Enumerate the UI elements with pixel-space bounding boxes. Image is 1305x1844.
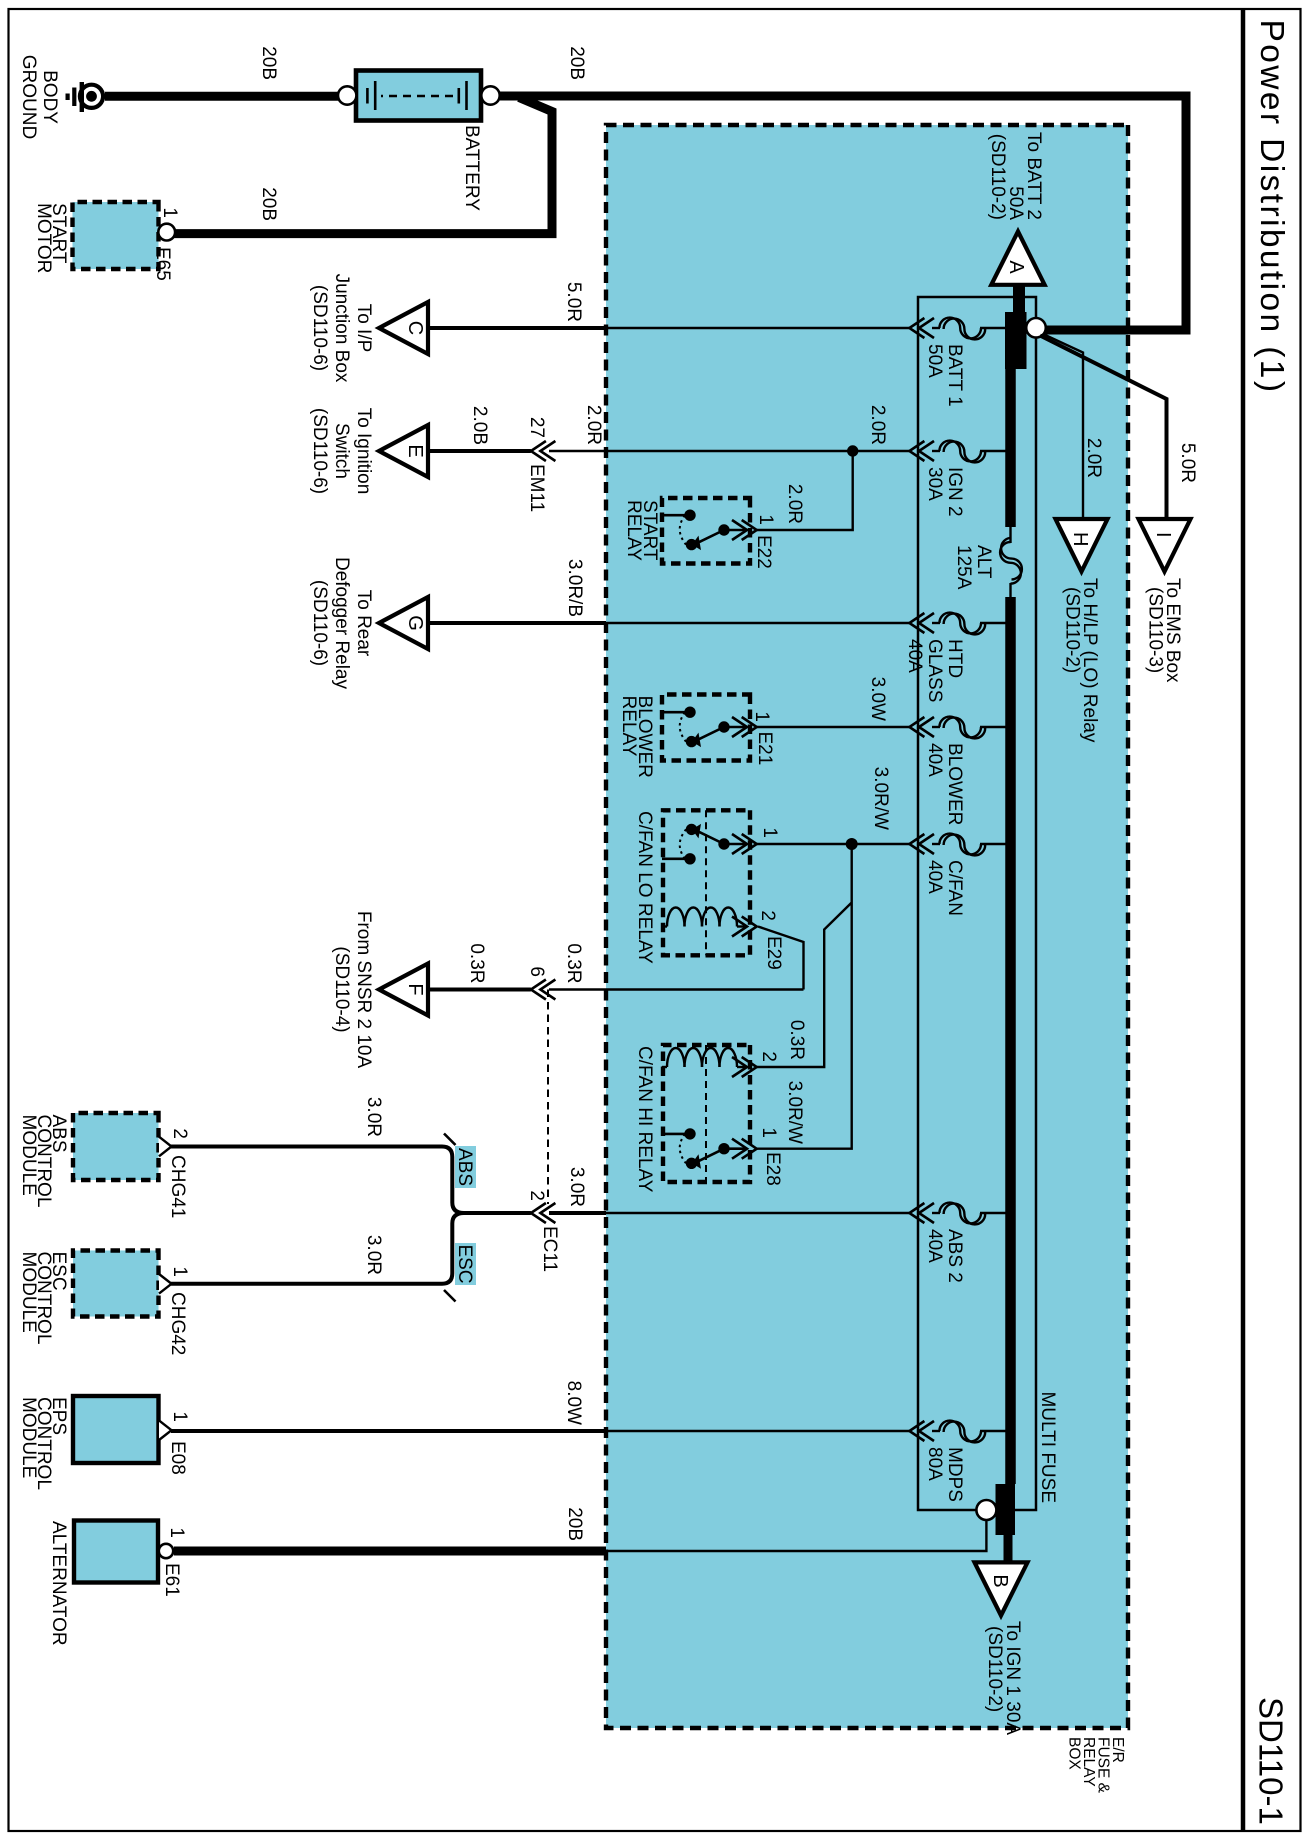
bus bar segment B (thick) xyxy=(996,1484,1016,1535)
wire to H/LP relay (2.0R) xyxy=(1043,334,1083,519)
cfan hi relay pin 1 chevrons xyxy=(732,1127,783,1185)
label ESC CONTROL MODULE xyxy=(18,1252,69,1345)
body ground symbol xyxy=(66,82,104,112)
svg-text:E28: E28 xyxy=(762,1152,783,1186)
svg-text:20B: 20B xyxy=(258,187,279,221)
svg-text:0.3R: 0.3R xyxy=(786,1020,807,1060)
svg-text:F: F xyxy=(404,983,426,995)
svg-text:2: 2 xyxy=(526,1190,547,1201)
wire IGN2 fuse down (2.0R) xyxy=(549,450,909,452)
off-page triangle E xyxy=(379,425,428,477)
EPS CONTROL MODULE box xyxy=(73,1396,159,1463)
bus bar segment A (thick) xyxy=(1005,312,1027,369)
svg-text:HTD: HTD xyxy=(944,639,965,678)
svg-text:MODULE: MODULE xyxy=(18,1115,39,1196)
ESC CONTROL MODULE box xyxy=(73,1251,159,1317)
svg-text:EM11: EM11 xyxy=(526,464,547,512)
svg-text:20B: 20B xyxy=(564,1507,585,1541)
svg-text:CHG42: CHG42 xyxy=(167,1292,188,1355)
svg-text:1: 1 xyxy=(751,711,772,722)
svg-text:MODULE: MODULE xyxy=(18,1252,39,1333)
label To I/P Junction Box xyxy=(309,274,374,383)
wire box edge to EC11 (3.0R) xyxy=(549,1211,606,1215)
off-page triangle G xyxy=(379,597,428,649)
svg-text:B: B xyxy=(989,1574,1011,1587)
label To EMS Box xyxy=(1145,578,1184,683)
wire HTD fuse to box edge (3.0R/B) xyxy=(606,622,909,624)
wire LO pin2 to SNSR line (E29 path) xyxy=(758,927,804,990)
connector E65 label xyxy=(152,247,173,281)
svg-text:C/FAN: C/FAN xyxy=(944,860,965,916)
label To BATT 2 50A xyxy=(987,132,1044,220)
highlight label ESC xyxy=(454,1243,476,1285)
eps terminal pin 1 (E08) xyxy=(159,1411,190,1474)
svg-text:(SD110-6): (SD110-6) xyxy=(309,285,330,371)
label 2.0R (below box) xyxy=(583,405,604,445)
svg-text:Power Distribution (1): Power Distribution (1) xyxy=(1253,20,1290,395)
title Power Distribution (1) xyxy=(1253,20,1290,395)
svg-text:2.0B: 2.0B xyxy=(469,406,490,445)
label To IGN 1 30A xyxy=(984,1621,1023,1735)
svg-text:C: C xyxy=(404,321,426,335)
svg-text:40A: 40A xyxy=(924,1229,945,1263)
wire battery to bus junction (20B) xyxy=(499,96,1186,330)
START RELAY box xyxy=(662,498,750,564)
label 2.0B xyxy=(469,406,490,445)
bus stub into triangle B xyxy=(1004,1535,1013,1564)
cfan lo relay coil xyxy=(662,908,747,927)
svg-text:E08: E08 xyxy=(167,1441,188,1475)
svg-text:3.0R: 3.0R xyxy=(363,1235,384,1275)
MULTI FUSE bracket outline xyxy=(918,297,1036,1510)
svg-text:2.0R: 2.0R xyxy=(867,405,888,445)
wire box edge to EPS module (8.0W) xyxy=(171,1429,606,1433)
svg-text:Switch: Switch xyxy=(331,423,352,479)
off-page triangle F xyxy=(379,964,428,1016)
label 3.0R (ABS wire) xyxy=(363,1097,384,1137)
label EPS CONTROL MODULE xyxy=(18,1397,69,1490)
label BLOWER RELAY xyxy=(618,696,655,778)
label START MOTOR xyxy=(33,203,69,273)
svg-text:1: 1 xyxy=(759,827,780,838)
bus stub from triangle A xyxy=(1013,283,1025,313)
svg-text:ALTERNATOR: ALTERNATOR xyxy=(48,1521,69,1646)
wire box edge to triangle G xyxy=(428,621,606,625)
blower relay switch xyxy=(662,707,747,748)
highlight label ABS xyxy=(454,1146,476,1188)
svg-text:MDPS: MDPS xyxy=(944,1447,965,1502)
svg-text:GROUND: GROUND xyxy=(18,55,39,139)
wire box edge to alternator (20B) xyxy=(174,1547,606,1556)
svg-text:BATT 1: BATT 1 xyxy=(944,344,965,407)
label 3.0R/W (row) xyxy=(870,767,891,830)
svg-text:BOX: BOX xyxy=(1066,1737,1083,1770)
svg-text:2: 2 xyxy=(757,910,778,921)
title separator line xyxy=(1241,9,1246,1831)
svg-text:1: 1 xyxy=(758,1127,779,1138)
wire cfan junction to HI pin 1 (3.0R/W) xyxy=(756,844,852,1149)
svg-text:(SD110-2): (SD110-2) xyxy=(984,1626,1005,1712)
battery box xyxy=(356,71,481,121)
label 8.0W xyxy=(563,1381,584,1425)
fuse MDPS 80A xyxy=(909,1421,1006,1502)
ABS CONTROL MODULE box xyxy=(73,1113,159,1180)
start relay switch xyxy=(662,510,747,551)
svg-text:6: 6 xyxy=(526,966,547,977)
bus line right of ALT fuse xyxy=(1009,583,1011,1484)
svg-text:1: 1 xyxy=(169,1411,190,1422)
svg-text:30A: 30A xyxy=(924,467,945,501)
svg-text:40A: 40A xyxy=(924,743,945,777)
fuse C/FAN 40A xyxy=(909,834,1006,916)
C/FAN LO RELAY box xyxy=(663,810,750,955)
svg-text:ABS 2: ABS 2 xyxy=(944,1229,965,1283)
cfan hi relay coil xyxy=(662,1048,747,1067)
svg-text:E65: E65 xyxy=(152,247,173,281)
label 20B (battery output) xyxy=(566,46,587,80)
svg-text:3.0R/W: 3.0R/W xyxy=(784,1081,805,1144)
label 2.0R (H feed) xyxy=(1083,438,1104,478)
svg-text:20B: 20B xyxy=(566,46,587,80)
svg-text:3.0R/W: 3.0R/W xyxy=(870,767,891,830)
label 2.0R (branch) xyxy=(784,484,805,524)
svg-text:A: A xyxy=(1005,260,1027,274)
fuse HTD GLASS 40A xyxy=(904,613,1006,703)
svg-text:BATTERY: BATTERY xyxy=(461,125,482,211)
svg-text:Junction Box: Junction Box xyxy=(331,274,352,383)
label To Rear Defogger Relay xyxy=(309,557,374,690)
svg-text:CHG41: CHG41 xyxy=(167,1155,188,1218)
label 0.3R (to SNSR) xyxy=(466,943,487,983)
C/FAN HI relay divider xyxy=(705,1045,707,1182)
off-page triangle B xyxy=(975,1562,1028,1615)
svg-text:0.3R: 0.3R xyxy=(466,943,487,983)
svg-text:5.0R: 5.0R xyxy=(1177,443,1198,483)
svg-text:I: I xyxy=(1152,532,1174,538)
svg-text:2.0R: 2.0R xyxy=(784,484,805,524)
svg-text:2: 2 xyxy=(758,1051,779,1062)
svg-text:(SD110-4): (SD110-4) xyxy=(331,946,352,1032)
svg-text:SD110-1: SD110-1 xyxy=(1253,1697,1290,1825)
svg-text:(SD110-6): (SD110-6) xyxy=(309,408,330,494)
label 0.3R (HI pin2) xyxy=(786,1020,807,1060)
svg-text:0.3R: 0.3R xyxy=(563,943,584,983)
wire SNSR line in box (0.3R) xyxy=(549,988,804,990)
svg-text:From SNSR 2 10A: From SNSR 2 10A xyxy=(353,911,374,1069)
svg-text:3.0R: 3.0R xyxy=(363,1097,384,1137)
esc terminal pin 1 (CHG42) xyxy=(159,1266,190,1355)
svg-text:1: 1 xyxy=(166,1527,187,1538)
svg-text:MULTI FUSE: MULTI FUSE xyxy=(1037,1391,1058,1503)
label 3.0R/B xyxy=(564,559,585,617)
svg-text:BLOWER: BLOWER xyxy=(944,743,965,825)
svg-text:ESC: ESC xyxy=(454,1244,475,1283)
BLOWER RELAY box xyxy=(662,695,750,761)
START MOTOR box xyxy=(73,202,159,269)
svg-text:EC11: EC11 xyxy=(539,1226,560,1272)
fuse BATT 1 50A xyxy=(909,318,1006,407)
svg-text:C/FAN LO RELAY: C/FAN LO RELAY xyxy=(634,811,655,964)
svg-text:40A: 40A xyxy=(904,639,925,673)
off-page triangle C xyxy=(379,302,428,354)
fuse ABS 2 40A xyxy=(909,1203,1006,1283)
wire connector to triangle F (0.3R) xyxy=(428,988,531,992)
svg-text:E21: E21 xyxy=(754,732,775,766)
label To Ignition Switch xyxy=(309,408,374,495)
svg-text:Defogger Relay: Defogger Relay xyxy=(331,557,352,690)
fuse IGN 2 30A xyxy=(909,441,1006,517)
svg-text:MOTOR: MOTOR xyxy=(33,203,54,273)
wire EM11 to triangle E (2.0B) xyxy=(428,449,531,453)
svg-text:2: 2 xyxy=(169,1128,190,1139)
svg-text:50A: 50A xyxy=(924,344,945,378)
svg-text:E: E xyxy=(404,444,426,457)
label C/FAN LO RELAY xyxy=(634,811,655,964)
battery internal plates xyxy=(367,81,466,110)
wire ground to battery (20B) xyxy=(105,92,340,101)
pin 1 label (E65) xyxy=(159,207,180,218)
page number SD110-1 xyxy=(1253,1697,1290,1825)
svg-text:20B: 20B xyxy=(258,46,279,80)
svg-text:5.0R: 5.0R xyxy=(563,282,584,322)
wire BLOWER fuse to relay (3.0W) xyxy=(756,726,909,728)
connector EC11 pin 2 chevrons xyxy=(526,1190,560,1272)
svg-text:E29: E29 xyxy=(763,936,784,970)
svg-text:To Rear: To Rear xyxy=(353,590,374,657)
wire box edge to triangle C xyxy=(428,326,606,330)
label C/FAN HI RELAY xyxy=(634,1046,655,1193)
connector EM11 chevrons pin 27 xyxy=(526,417,555,512)
junction dot C/FAN row xyxy=(846,838,858,850)
ALTERNATOR box xyxy=(74,1521,158,1583)
battery terminal (top) xyxy=(481,86,499,104)
svg-text:To Ignition: To Ignition xyxy=(353,408,374,495)
label BATTERY xyxy=(461,125,482,211)
label 5.0R xyxy=(563,282,584,322)
wire EC11 to merge point xyxy=(462,1211,531,1215)
off-page triangle A xyxy=(991,232,1044,285)
svg-text:G: G xyxy=(404,615,426,631)
svg-text:2.0R: 2.0R xyxy=(583,405,604,445)
svg-text:BODY: BODY xyxy=(39,70,60,124)
svg-text:RELAY: RELAY xyxy=(618,696,639,757)
start relay pin 1 chevrons xyxy=(732,514,776,568)
E/R FUSE & RELAY BOX label xyxy=(1066,1737,1127,1794)
svg-text:E22: E22 xyxy=(753,535,774,569)
E/R FUSE & RELAY BOX outline xyxy=(606,125,1128,1728)
fuse ALT 125A (in bus) xyxy=(953,538,1022,590)
wire C/FAN fuse to LO relay pin 1 (3.0R/W) xyxy=(756,843,909,845)
label 3.0R (ESC wire) xyxy=(363,1235,384,1275)
wire junction B to box edge (20B thin) xyxy=(606,1520,986,1551)
svg-text:ABS: ABS xyxy=(454,1148,475,1186)
white junction circle at bus (A) xyxy=(1026,318,1046,338)
wire ABS2 fuse to box edge (3.0R) xyxy=(606,1212,909,1214)
junction dot E row xyxy=(847,445,858,456)
svg-text:8.0W: 8.0W xyxy=(563,1381,584,1425)
svg-text:To I/P: To I/P xyxy=(353,304,374,353)
wire branch to start relay (2.0R) xyxy=(756,451,853,530)
cfan hi relay switch xyxy=(662,1128,747,1169)
tick at ABS merge corner xyxy=(444,1134,456,1146)
bus line left of ALT fuse xyxy=(1005,369,1016,543)
svg-text:1: 1 xyxy=(169,1266,190,1277)
svg-text:(SD110-6): (SD110-6) xyxy=(309,580,330,666)
label ALTERNATOR xyxy=(48,1521,69,1646)
svg-text:(SD110-3): (SD110-3) xyxy=(1145,587,1166,673)
label 0.3R (above connector) xyxy=(563,943,584,983)
cfan lo relay pin 1 chevrons xyxy=(732,827,780,854)
svg-text:ALT: ALT xyxy=(973,545,994,579)
MULTI FUSE label xyxy=(1037,1391,1058,1503)
svg-text:C/FAN HI RELAY: C/FAN HI RELAY xyxy=(634,1046,655,1193)
svg-text:1: 1 xyxy=(755,514,776,525)
svg-text:(SD110-2): (SD110-2) xyxy=(1062,587,1083,673)
svg-text:40A: 40A xyxy=(924,860,945,894)
label 20B (alternator wire) xyxy=(564,1507,585,1541)
cfan lo relay pin 2 chevrons xyxy=(732,910,784,969)
wire merge to ABS module (3.0R) xyxy=(171,1147,464,1214)
label 3.0R/W (HI pin1) xyxy=(784,1081,805,1144)
svg-text:RELAY: RELAY xyxy=(623,500,644,561)
svg-text:H: H xyxy=(1069,532,1091,546)
wire MDPS fuse to box edge (8.0W) xyxy=(606,1430,909,1432)
wire BATT1 fuse to box edge (5.0R) xyxy=(606,327,909,329)
white junction circle at bus (B) xyxy=(976,1500,996,1520)
svg-text:2.0R: 2.0R xyxy=(1083,438,1104,478)
svg-text:GLASS: GLASS xyxy=(924,639,945,702)
svg-text:27: 27 xyxy=(526,417,547,438)
wire branch to start motor (20B) xyxy=(174,98,552,234)
svg-text:IGN 2: IGN 2 xyxy=(944,467,965,517)
label 3.0W xyxy=(867,677,888,721)
svg-text:3.0R/B: 3.0R/B xyxy=(564,559,585,617)
off-page triangle I xyxy=(1139,519,1191,572)
dashed link pin6 to EC11 xyxy=(547,990,549,1205)
svg-text:(SD110-2): (SD110-2) xyxy=(987,134,1008,220)
label From SNSR 2 10A xyxy=(331,911,374,1069)
alternator terminal E61 pin 1 xyxy=(159,1527,187,1596)
label ABS CONTROL MODULE xyxy=(18,1115,69,1208)
svg-text:E61: E61 xyxy=(161,1563,182,1597)
svg-text:80A: 80A xyxy=(924,1447,945,1481)
off-page triangle H xyxy=(1056,519,1108,572)
label To H/LP (LO) Relay xyxy=(1062,578,1101,743)
cfan hi relay pin 2 chevrons xyxy=(732,1051,779,1077)
blower relay pin 1 chevrons xyxy=(732,711,775,765)
wire merge to ESC module (3.0R) xyxy=(171,1213,464,1284)
wire branch to HI pin 2 (0.3R) xyxy=(756,903,852,1068)
label BODY GROUND xyxy=(18,55,60,139)
abs terminal pin 2 (CHG41) xyxy=(159,1128,190,1218)
svg-text:125A: 125A xyxy=(953,545,974,590)
svg-text:3.0W: 3.0W xyxy=(867,677,888,721)
label START RELAY xyxy=(623,500,660,561)
label 2.0R (row top) xyxy=(867,405,888,445)
svg-text:MODULE: MODULE xyxy=(18,1397,39,1478)
label 20B (start motor wire) xyxy=(258,187,279,221)
cfan lo relay switch xyxy=(662,824,747,865)
start motor terminal E65 pin 1 xyxy=(158,224,175,241)
svg-text:3.0R: 3.0R xyxy=(566,1167,587,1207)
label 20B (ground wire) xyxy=(258,46,279,80)
connector pin 6 chevrons xyxy=(526,966,555,999)
wire to EMS box (5.0R) xyxy=(1040,336,1167,520)
C/FAN HI RELAY box xyxy=(663,1045,750,1182)
C/FAN LO relay divider xyxy=(705,810,707,955)
label 3.0R (row) xyxy=(566,1167,587,1207)
battery terminal (bottom) xyxy=(338,86,356,104)
label 5.0R (I feed) xyxy=(1177,443,1198,483)
tick at ESC merge corner xyxy=(444,1290,456,1302)
fuse BLOWER 40A xyxy=(909,717,1006,826)
svg-text:1: 1 xyxy=(159,207,180,218)
